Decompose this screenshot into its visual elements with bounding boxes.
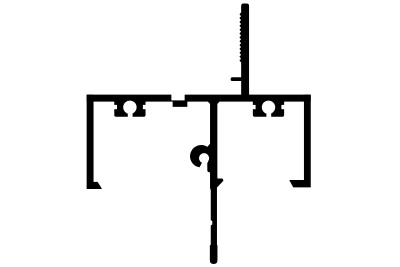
fin side tab: [231, 78, 243, 81]
right port outer notch R: [281, 105, 286, 109]
right port omega hole: [262, 101, 275, 114]
right wall and foot: [290, 95, 311, 187]
left port omega hole: [123, 101, 136, 114]
right port throat: [266, 110, 271, 118]
left wall and foot: [87, 95, 101, 189]
central web with hook, barb and bulb: [190, 100, 223, 264]
left port outer notch L: [113, 105, 118, 109]
web-rail fillet left: [208, 101, 211, 104]
web-rail fillet right: [217, 101, 220, 104]
left port outer notch R: [143, 105, 148, 109]
left port throat: [128, 110, 133, 118]
top rail with center groove jog: [87, 95, 310, 107]
right screw port block: [253, 101, 284, 117]
left screw port block: [115, 101, 146, 117]
serrated fin: [240, 4, 249, 95]
right port outer notch L: [251, 105, 256, 109]
